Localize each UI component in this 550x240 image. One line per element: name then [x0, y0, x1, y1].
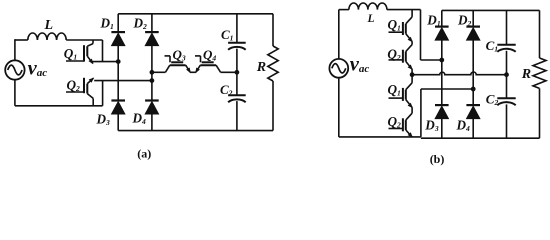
- diode D2 (b): [466, 27, 480, 41]
- svg-text:C2: C2: [220, 82, 233, 98]
- label L (a): [44, 18, 54, 33]
- wire Q2 drop (a): [102, 81, 104, 106]
- top rail (a): [118, 13, 273, 15]
- wire R bottom (a): [272, 81, 274, 131]
- wire source bottom (a): [15, 80, 103, 106]
- node D1-D3 mid (b): [440, 58, 444, 62]
- wire C2 bottom (a): [236, 101, 238, 131]
- wire A: Q1 emitter to D1-D3 mid (a): [92, 61, 119, 63]
- svg-text:D2: D2: [133, 16, 148, 32]
- wire source bottom (b): [339, 78, 421, 137]
- wire Q2 emitter stub (b): [411, 69, 413, 75]
- diode D2 (a): [145, 32, 159, 46]
- wire D3 bottom (b): [441, 119, 443, 139]
- label D4 (a): [132, 111, 147, 127]
- label R (a): [256, 60, 266, 75]
- svg-text:C1: C1: [486, 38, 499, 54]
- wire C2 bottom (b): [506, 104, 508, 138]
- wire Q3-Q4 junction (b): [411, 107, 413, 113]
- wire branch right (a): [221, 71, 237, 73]
- wire D2-D4 leg (b): [472, 40, 474, 105]
- caption (b): [430, 152, 445, 166]
- node D2-D4 mid (b): [471, 87, 475, 91]
- svg-text:Q2: Q2: [67, 78, 81, 94]
- wire D3 bottom (a): [117, 114, 119, 131]
- diode D1 (b): [435, 27, 449, 41]
- node stack mid (b): [410, 73, 414, 77]
- svg-text:L: L: [44, 18, 54, 33]
- transistor Q1 (a): [66, 40, 93, 63]
- wire branch left (a): [152, 71, 166, 73]
- capacitor C2 (b): [497, 98, 515, 105]
- label v_ac (b): [350, 54, 370, 76]
- label Q4 (b): [388, 114, 402, 130]
- wire R top (a): [272, 14, 274, 46]
- svg-text:C1: C1: [221, 27, 234, 43]
- label Q2 (b): [387, 46, 401, 62]
- ac source v_ac (a): [5, 60, 24, 79]
- svg-text:Q2: Q2: [388, 114, 402, 130]
- label Q1 (a): [64, 46, 78, 62]
- node D2-D4 mid (a): [150, 70, 154, 74]
- wire source top (a): [15, 39, 28, 60]
- wire R bottom (b): [539, 88, 541, 138]
- wire C1-C2 (b): [506, 51, 508, 98]
- inductor L (b): [349, 3, 387, 10]
- resistor R (a): [268, 46, 278, 81]
- wire B: Q2 emitter to D2-D4 mid (a): [94, 80, 152, 82]
- node D1-D3 mid (a): [116, 60, 120, 64]
- wire L to Q1 leg (a): [66, 39, 102, 41]
- top rail (b): [442, 9, 540, 11]
- label Q1 (b): [388, 17, 402, 33]
- wire Q1 drop (a): [102, 40, 104, 62]
- svg-text:Q3: Q3: [173, 47, 186, 63]
- label Q3 (b): [388, 82, 402, 98]
- svg-text:D3: D3: [96, 112, 111, 128]
- wire source top (b): [339, 10, 349, 59]
- wire Q1-Q2 junction (b): [411, 42, 413, 45]
- wire D1 top (a): [117, 14, 119, 32]
- transistor Q4 (b): [389, 113, 413, 137]
- bottom rail (a): [118, 130, 273, 132]
- wire C1-C2 (a): [236, 49, 238, 96]
- caption (a): [137, 146, 151, 160]
- svg-text:Q2: Q2: [387, 46, 401, 62]
- diode D3 (a): [111, 101, 125, 115]
- bottom rail (b): [421, 137, 540, 139]
- label D3 (b): [424, 117, 439, 133]
- ac source v_ac (b): [329, 59, 348, 78]
- node C mid (b): [505, 73, 509, 77]
- transistor Q2 (a): [66, 78, 93, 106]
- wire D2-D4 leg (a): [151, 46, 153, 101]
- wire branch mid (a): [190, 71, 196, 73]
- diode D4 (a): [145, 101, 159, 115]
- label D4 (b): [456, 118, 471, 134]
- svg-text:vac: vac: [28, 57, 48, 79]
- wire drop to D1-D3 mid (b): [421, 10, 442, 60]
- wire D2 top (b): [472, 10, 474, 26]
- label D2 (a): [133, 16, 148, 32]
- svg-text:D4: D4: [456, 118, 471, 134]
- svg-text:L: L: [367, 13, 375, 25]
- label C2 (b): [486, 91, 499, 107]
- node D2-D4 mid lower (a): [150, 79, 154, 83]
- wire neutral riser to D2-D4 mid (b): [421, 89, 473, 137]
- transistor Q4 (a): [195, 56, 221, 72]
- wire R top (b): [539, 10, 541, 58]
- label C2 (a): [220, 82, 233, 98]
- label D2 (b): [457, 13, 472, 29]
- capacitor C2 (a): [228, 95, 246, 102]
- label v_ac (a): [28, 57, 48, 79]
- label R (b): [521, 67, 531, 82]
- diode D1 (a): [111, 32, 125, 46]
- wire D1-D3 leg (a): [117, 46, 119, 101]
- svg-text:(b): (b): [430, 152, 445, 166]
- inductor L (a): [28, 33, 66, 40]
- label Q2 (a): [67, 78, 81, 94]
- label Q4 (a): [203, 47, 216, 63]
- node C mid (a): [235, 70, 239, 74]
- svg-text:Q1: Q1: [388, 82, 402, 98]
- label L (b): [367, 13, 375, 25]
- label D1 (a): [100, 16, 115, 32]
- diode D4 (b): [466, 105, 480, 119]
- svg-text:Q4: Q4: [203, 47, 216, 63]
- label Q3 (a): [173, 47, 186, 63]
- transistor Q2 (b): [389, 45, 413, 70]
- svg-text:D4: D4: [132, 111, 147, 127]
- svg-text:vac: vac: [350, 54, 370, 76]
- svg-text:R: R: [521, 67, 531, 82]
- svg-text:Q1: Q1: [388, 17, 402, 33]
- diode D3 (b): [435, 105, 449, 119]
- svg-text:C2: C2: [486, 91, 499, 107]
- svg-text:(a): (a): [137, 146, 151, 160]
- wire C1 top (b): [506, 10, 508, 44]
- transistor Q1 (b): [389, 10, 413, 42]
- label D1 (b): [426, 13, 441, 29]
- label C1 (b): [486, 38, 499, 54]
- label C1 (a): [221, 27, 234, 43]
- svg-text:D2: D2: [457, 13, 472, 29]
- wire C1 top (a): [236, 14, 238, 43]
- capacitor C1 (b): [497, 45, 515, 52]
- wire D4 bottom (a): [151, 114, 153, 131]
- svg-text:D1: D1: [100, 16, 115, 32]
- wire D2 top (a): [151, 14, 153, 32]
- resistor R (b): [533, 58, 546, 88]
- svg-text:Q1: Q1: [64, 46, 78, 62]
- transistor Q3 (a): [165, 56, 191, 72]
- svg-text:D1: D1: [426, 13, 441, 29]
- wire D4 bottom (b): [472, 119, 474, 139]
- wire D1 top (b): [441, 10, 443, 26]
- wire L to stack (b): [387, 9, 421, 11]
- transistor Q3 (b): [389, 75, 413, 108]
- capacitor C1 (a): [228, 43, 246, 50]
- wire D1-D3 leg (b): [441, 40, 443, 105]
- svg-text:D3: D3: [424, 117, 439, 133]
- wire stack mid to C mid (b): [412, 72, 506, 75]
- svg-text:R: R: [256, 60, 266, 75]
- label D3 (a): [96, 112, 111, 128]
